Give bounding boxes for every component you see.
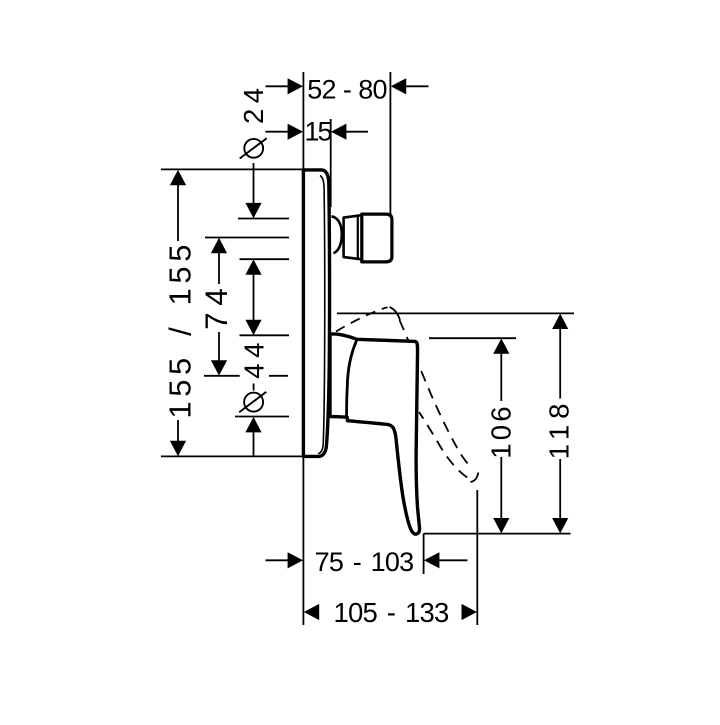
svg-text:24: 24: [238, 82, 269, 124]
svg-text:75 - 103: 75 - 103: [315, 547, 414, 577]
svg-text:106: 106: [486, 403, 517, 458]
svg-text:105 - 133: 105 - 133: [333, 597, 449, 628]
svg-text:155 / 155: 155 / 155: [163, 240, 198, 419]
svg-text:44: 44: [239, 337, 270, 379]
svg-text:15: 15: [304, 117, 331, 147]
svg-text:118: 118: [544, 398, 575, 460]
svg-text:74: 74: [198, 282, 234, 330]
svg-text:52 - 80: 52 - 80: [307, 74, 386, 104]
